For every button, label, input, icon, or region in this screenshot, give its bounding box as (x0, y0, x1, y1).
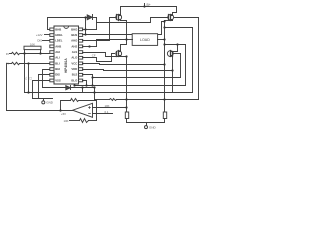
svg-text:VSS: VSS (55, 78, 61, 82)
svg-text:LOAD: LOAD (140, 38, 150, 42)
node L86 pin11 (85, 84, 87, 86)
hysteresis resistor wire (70, 120, 80, 122)
ground GND2 (146, 123, 148, 126)
ground GND1 (43, 99, 45, 101)
node L86 stub (73, 84, 75, 86)
node B vertical (164, 21, 166, 100)
svg-text:B+: B+ (147, 3, 151, 7)
wire load left (127, 39, 133, 41)
node D2 wire drop2 (93, 86, 95, 88)
svg-text:BHB: BHB (55, 27, 61, 31)
op-amp minus input stub (93, 113, 113, 115)
wire y22.7 run to TR gate (97, 18, 168, 23)
svg-text:LDEL: LDEL (55, 39, 63, 43)
svg-text:ALI: ALI (55, 56, 60, 60)
wire pin9 bend down (39, 75, 50, 99)
wire input1 left stub (10, 53, 12, 55)
svg-text:+12V: +12V (36, 33, 43, 37)
svg-text:IN: IN (6, 62, 9, 66)
wire top to diode junction vertical (85, 18, 87, 35)
wire run y44.7 (165, 44, 186, 46)
node A lower link (121, 40, 127, 51)
node ALS to leg A (125, 55, 127, 57)
wire pin18 AHO to TL gate (83, 18, 116, 41)
node L77 pin12 (91, 76, 93, 78)
wire Q4 drain loop (171, 45, 178, 52)
wire Q1 source to node A (121, 21, 127, 40)
node L65 to leg B (163, 63, 165, 65)
wire RH right lead (89, 120, 97, 122)
svg-text:HDEL: HDEL (55, 33, 63, 37)
node L70 to Q4 source (171, 69, 173, 71)
svg-text:ALO: ALO (71, 56, 78, 60)
B+ terminal (144, 4, 146, 7)
wire Q4 source down (171, 56, 173, 93)
svg-text:DIS: DIS (37, 39, 42, 43)
node L86 pin12 (91, 84, 93, 86)
node feedback tap (59, 109, 61, 111)
resistor RS2 (sense right) (164, 100, 166, 113)
resistor on bus (110, 99, 117, 101)
op-amp plus input wire (to sense node) (93, 107, 127, 109)
wire pin20 stub (83, 29, 97, 31)
wire bus right of resistor (117, 99, 199, 101)
wire pin8 bend down (43, 70, 50, 88)
svg-text:BLI: BLI (55, 61, 60, 65)
svg-text:10K: 10K (30, 42, 35, 46)
wire pin15 ALO to BL gate (83, 54, 115, 62)
wire Q2 source to node B (165, 20, 173, 22)
node A (125, 38, 127, 40)
wire long run L77 (93, 77, 181, 79)
right edge vertical x198 (198, 18, 200, 100)
resistor RH zigzag (80, 119, 89, 123)
node pin20 junction (84, 28, 86, 30)
wire R-del right drop (40, 50, 42, 54)
right edge vertical x185 (185, 45, 187, 86)
node Q4 drain loop (176, 43, 178, 45)
node pin6 branch (27, 62, 29, 64)
resistor RF zigzag (71, 99, 81, 102)
svg-text:BLO: BLO (71, 78, 78, 82)
svg-text:0.1: 0.1 (105, 110, 109, 114)
svg-text:BHO: BHO (71, 27, 78, 31)
svg-text:10K: 10K (105, 104, 110, 108)
svg-text:0.1: 0.1 (25, 76, 28, 80)
svg-text:DIS: DIS (55, 73, 60, 77)
wire pin16 ALS net (83, 53, 127, 57)
wire long run L99.7 bus (95, 99, 110, 101)
svg-text:HIP4081A: HIP4081A (64, 58, 68, 73)
wire pin17 AHS net (83, 46, 97, 48)
node pin17 junction (88, 45, 90, 47)
svg-text:AHS: AHS (71, 44, 77, 48)
wire pin14 jog down (83, 64, 165, 65)
wire left edge vertical x7 (6, 64, 8, 111)
wire left vertical x24 to L93 (24, 54, 26, 93)
wire Q4 gate from right (173, 53, 181, 55)
top bus B+ (121, 7, 177, 15)
LOAD box (132, 34, 157, 46)
svg-text:AHI: AHI (55, 50, 60, 54)
wire pin11 bend to L86 (83, 81, 87, 86)
node bus leg A (125, 98, 127, 100)
transistor Q1 (top-left FET) (116, 14, 122, 20)
wire bottom between sense (127, 122, 165, 124)
IC left pin pads (50, 28, 54, 82)
svg-text:+5V: +5V (61, 112, 66, 116)
resistor R-del box (24, 46, 41, 49)
wire drop x82.2 (82, 88, 84, 93)
diode D2 wire under IC (43, 87, 66, 89)
feedback right leg down (81, 101, 97, 121)
wire long run L93 (25, 92, 193, 94)
svg-text:BHI: BHI (55, 67, 60, 71)
transistor Q4 (bottom-right FET) (167, 51, 173, 57)
transistor Q3 (bottom-left FET) (116, 51, 122, 57)
IC right pin pads (79, 28, 83, 82)
node sense tap (125, 106, 127, 108)
junction dots (23, 5, 178, 111)
node R-del right (39, 52, 41, 54)
left label pin2 stub (45, 34, 50, 36)
svg-text:VDD: VDD (71, 67, 77, 71)
resistor RIN2 zigzag (12, 62, 20, 64)
svg-text:BHS: BHS (71, 33, 77, 37)
wire pin5 input (21, 53, 50, 55)
wire drop x94.5 (94, 88, 96, 100)
wire run y17.2 (175, 17, 199, 19)
svg-text:BLS: BLS (72, 73, 78, 77)
wire pin19 BHS run (83, 22, 165, 35)
resistor RIN1 zigzag (12, 52, 20, 54)
wire AHS up-jog to node A (97, 40, 127, 47)
svg-text:AHO: AHO (71, 39, 78, 43)
svg-text:CF: CF (92, 53, 96, 57)
IC U1 body (54, 26, 79, 84)
node D2 wire drop1 (81, 86, 83, 88)
wire vertical x28 down to L93 (28, 64, 30, 93)
wire run y27 (165, 27, 193, 29)
node pin19 junction (84, 33, 86, 35)
IC pin labels (tiny) (55, 27, 78, 82)
IC U1 notch (64, 26, 69, 28)
wire diode down jog (96, 18, 98, 30)
node R-del left (23, 52, 25, 54)
svg-text:ALS: ALS (72, 50, 78, 54)
wire pin10 bend down (33, 81, 50, 99)
svg-text:10K: 10K (64, 119, 69, 123)
right edge vertical x192 (192, 28, 194, 93)
svg-text:AHB: AHB (55, 44, 61, 48)
node y27 run (163, 26, 165, 28)
svg-text:GND: GND (149, 125, 157, 129)
transistor Q2 (top-right FET) (168, 14, 174, 20)
wire pin6 input (7, 63, 12, 65)
node bus leg B (163, 98, 165, 100)
op-amp U2 (points left) (73, 103, 93, 117)
node B+ tap (143, 5, 145, 7)
svg-text:GND: GND (46, 100, 54, 104)
svg-text:C2: C2 (30, 76, 33, 80)
feedback loop RF (61, 101, 71, 111)
svg-text:VCC: VCC (71, 61, 77, 65)
wire gnd bus under IC (33, 98, 53, 100)
node L93 cross (93, 91, 95, 93)
op-amp output wire to left (7, 110, 73, 112)
diode D1 (86, 17, 88, 19)
left label pin3 stub (43, 40, 50, 42)
wire Q3 source down (126, 57, 128, 100)
text labels (6, 3, 157, 129)
wire stub x74.7 (74, 85, 76, 86)
node B (163, 38, 165, 40)
node B top (163, 20, 165, 22)
wire long run L86 (75, 85, 186, 87)
svg-text:IN: IN (6, 52, 9, 56)
wire pin12 bend (83, 75, 93, 86)
wire R-del left drop (24, 50, 26, 54)
node +12V top junction (84, 16, 86, 18)
wire load right (158, 39, 165, 41)
node x28 to L93 (27, 91, 29, 93)
wire pin1 top loop (48, 18, 86, 30)
wire pin13 long run L70 (83, 70, 173, 71)
node B drain link (163, 43, 165, 45)
resistor RS1 (sense left) (126, 100, 128, 113)
